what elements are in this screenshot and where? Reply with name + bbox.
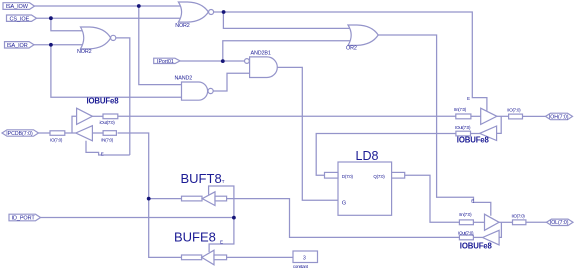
svg-text:IOut(7:0): IOut(7:0): [455, 125, 471, 130]
svg-text:NOR2: NOR2: [77, 49, 92, 55]
svg-text:IOBUFe8: IOBUFe8: [87, 96, 120, 105]
svg-text:IOBUFe8: IOBUFe8: [460, 241, 493, 250]
svg-text:IIO(7:0): IIO(7:0): [507, 107, 521, 112]
svg-text:CS_IOE: CS_IOE: [10, 16, 30, 22]
svg-text:ISA_IOW: ISA_IOW: [6, 4, 29, 10]
svg-text:3: 3: [303, 255, 306, 261]
svg-text:IIn(7:0): IIn(7:0): [459, 212, 472, 217]
svg-text:AND2B1: AND2B1: [251, 50, 271, 56]
svg-text:E: E: [471, 199, 474, 204]
svg-text:IOut(7:0): IOut(7:0): [458, 230, 474, 235]
svg-text:IO(7:0): IO(7:0): [50, 137, 63, 142]
svg-text:IPort01: IPort01: [157, 59, 174, 65]
svg-text:E: E: [467, 96, 470, 101]
svg-text:BUFE8: BUFE8: [174, 229, 216, 244]
svg-text:IN(7:0): IN(7:0): [101, 137, 114, 142]
svg-text:E: E: [101, 151, 104, 156]
svg-text:ID_PORT: ID_PORT: [12, 216, 36, 222]
svg-text:ISA_IOR: ISA_IOR: [7, 43, 28, 49]
svg-text:BUFT8: BUFT8: [181, 171, 222, 186]
svg-text:T: T: [222, 179, 225, 184]
svg-text:Q(7:0): Q(7:0): [373, 174, 385, 179]
svg-text:NOR2: NOR2: [175, 23, 190, 29]
svg-text:LD8: LD8: [356, 149, 379, 163]
svg-text:IPCDB(7:0): IPCDB(7:0): [6, 131, 33, 137]
svg-text:NAND2: NAND2: [175, 75, 193, 81]
svg-text:OR2: OR2: [346, 45, 357, 51]
svg-text:G: G: [342, 201, 346, 207]
svg-text:IIn(7:0): IIn(7:0): [454, 107, 467, 112]
svg-text:E: E: [220, 239, 223, 244]
svg-text:constant: constant: [293, 264, 309, 269]
svg-text:IOL(7:0): IOL(7:0): [550, 220, 569, 226]
svg-text:iOut(7:0): iOut(7:0): [100, 120, 116, 125]
svg-text:IOH(7:0): IOH(7:0): [549, 114, 569, 120]
svg-text:IIO(7:0): IIO(7:0): [512, 214, 526, 219]
svg-text:D(7:0): D(7:0): [342, 174, 354, 179]
svg-text:IOBUFe8: IOBUFe8: [457, 136, 490, 145]
